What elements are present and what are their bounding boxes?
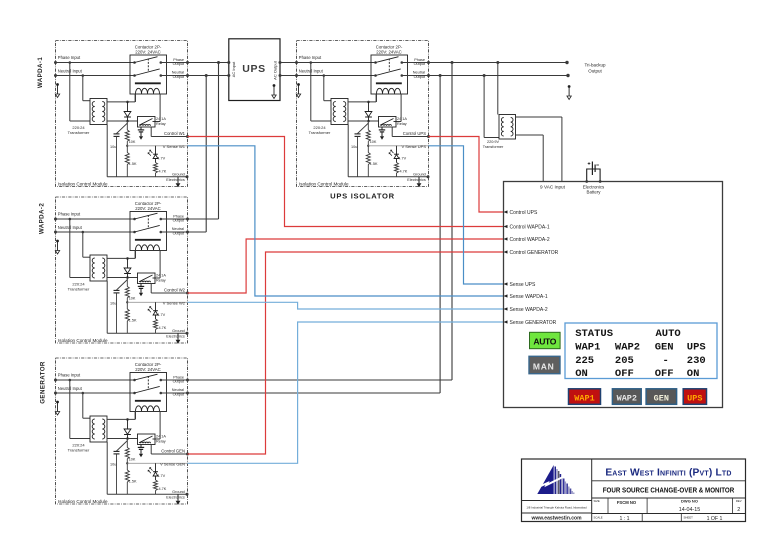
svg-text:Isolation Control Module: Isolation Control Module xyxy=(58,338,108,343)
svg-text:4.7K: 4.7K xyxy=(400,169,408,173)
svg-text:24 1A: 24 1A xyxy=(156,435,166,439)
svg-text:Electronics: Electronics xyxy=(166,495,185,499)
wire 220:9V transformer neutral drop xyxy=(483,74,499,138)
svg-text:Ground: Ground xyxy=(172,490,185,494)
svg-text:2: 2 xyxy=(737,507,740,513)
svg-text:Phase Input: Phase Input xyxy=(58,372,81,377)
svg-text:24 1A: 24 1A xyxy=(156,117,166,121)
svg-text:10u: 10u xyxy=(110,145,116,149)
svg-text:Phase Input: Phase Input xyxy=(58,55,81,60)
svg-text:225: 225 xyxy=(575,355,594,367)
svg-text:V Sense W2: V Sense W2 xyxy=(163,300,186,305)
UPS button xyxy=(683,389,706,405)
svg-text:UPS ISOLATOR: UPS ISOLATOR xyxy=(330,192,395,201)
wire UPS output phase to isolator xyxy=(279,61,297,64)
svg-text:GENERATOR: GENERATOR xyxy=(40,361,47,404)
svg-text:Neutral: Neutral xyxy=(172,388,184,392)
svg-text:1 : 1: 1 : 1 xyxy=(619,516,629,522)
svg-text:10K: 10K xyxy=(370,140,377,144)
svg-text:10u: 10u xyxy=(351,145,357,149)
svg-text:Phase Input: Phase Input xyxy=(58,211,81,216)
svg-text:Electronics: Electronics xyxy=(407,178,426,182)
svg-text:Transformer: Transformer xyxy=(309,130,331,135)
svg-text:V Sense GEN: V Sense GEN xyxy=(160,461,185,466)
UPS U1 box xyxy=(229,39,280,101)
company name xyxy=(605,468,731,479)
svg-text:14-04-15: 14-04-15 xyxy=(679,507,701,513)
GEN button xyxy=(646,389,677,405)
svg-text:4.7V: 4.7V xyxy=(157,157,165,161)
svg-text:24 1A: 24 1A xyxy=(397,117,407,121)
UPS-ISOLATOR ground arrow xyxy=(297,41,429,187)
wire Control WAPDA-2 (red) xyxy=(188,239,504,293)
svg-text:FSCM NO: FSCM NO xyxy=(617,500,637,505)
svg-text:Control WAPDA-1: Control WAPDA-1 xyxy=(510,224,550,230)
title block fields xyxy=(594,499,742,522)
svg-text:Transformer: Transformer xyxy=(68,287,90,292)
svg-text:AC Output: AC Output xyxy=(273,60,278,80)
title block frame xyxy=(522,459,746,522)
svg-text:10u: 10u xyxy=(110,463,116,467)
svg-text:Neutral: Neutral xyxy=(172,227,184,231)
status panel header AUTO xyxy=(656,328,681,340)
MAN button xyxy=(529,356,560,373)
svg-text:ON: ON xyxy=(687,368,700,380)
company logo xyxy=(534,465,574,494)
svg-text:Phase Input: Phase Input xyxy=(299,55,322,60)
svg-text:Control GEN: Control GEN xyxy=(161,449,185,454)
wire neutral bus isolator to Tri-backup output xyxy=(429,74,570,77)
svg-text:WAP2: WAP2 xyxy=(617,393,637,403)
svg-text:Output: Output xyxy=(588,68,602,73)
wire neutral bus WAPDA-1 to UPS xyxy=(188,74,231,77)
svg-text:REV: REV xyxy=(736,499,742,503)
svg-text:1.5K: 1.5K xyxy=(129,319,137,323)
svg-text:Control WAPDA-2: Control WAPDA-2 xyxy=(510,237,550,243)
svg-text:AUTO: AUTO xyxy=(656,328,681,340)
svg-text:GEN: GEN xyxy=(655,342,674,354)
WAP2 button xyxy=(612,389,641,405)
svg-text:Output: Output xyxy=(173,62,185,66)
svg-text:DWG NO: DWG NO xyxy=(681,499,698,504)
status display panel xyxy=(565,323,717,379)
svg-text:Output: Output xyxy=(173,380,185,384)
svg-text:Sense UPS: Sense UPS xyxy=(510,282,537,288)
svg-text:230: 230 xyxy=(687,355,706,367)
svg-text:www.eastwestin.com: www.eastwestin.com xyxy=(530,516,582,522)
svg-text:Output: Output xyxy=(173,219,185,223)
svg-text:OFF: OFF xyxy=(615,368,634,380)
wire Sense WAPDA-1 (blue) xyxy=(188,146,504,296)
WAPDA-1 ground arrow xyxy=(56,41,188,187)
svg-text:Electronics: Electronics xyxy=(166,178,185,182)
wire Sense GENERATOR (light blue) xyxy=(188,322,504,463)
svg-text:Control W2: Control W2 xyxy=(164,288,186,293)
wire GENERATOR phase feeder xyxy=(188,61,454,380)
wire Sense UPS (blue) xyxy=(429,146,504,284)
svg-text:1.5K: 1.5K xyxy=(370,162,378,166)
svg-text:OFF: OFF xyxy=(655,368,674,380)
svg-text:WAPDA-2: WAPDA-2 xyxy=(39,203,46,234)
svg-text:UPS: UPS xyxy=(687,342,706,354)
WAP1 button xyxy=(569,389,601,405)
wire 220:9V transformer phase drop xyxy=(496,61,499,115)
svg-text:Relay: Relay xyxy=(397,122,407,126)
wire phase bus WAPDA-1 to UPS xyxy=(188,61,231,64)
svg-text:Ground: Ground xyxy=(413,173,426,177)
svg-text:UPS: UPS xyxy=(242,63,265,75)
wire 9VAC secondary top to control unit xyxy=(516,117,562,182)
svg-text:Neutral: Neutral xyxy=(413,71,425,75)
svg-text:Control W1: Control W1 xyxy=(164,131,186,136)
control unit pin Control GENERATOR xyxy=(504,250,559,256)
status panel source row xyxy=(575,342,706,354)
svg-text:SCALE: SCALE xyxy=(594,516,603,520)
control unit pin Sense WAPDA-2 xyxy=(504,307,548,313)
svg-text:4.7V: 4.7V xyxy=(157,313,165,317)
status panel state row xyxy=(575,368,699,380)
svg-text:WAP1: WAP1 xyxy=(575,342,600,354)
svg-text:SHEET: SHEET xyxy=(684,516,694,520)
UPS ISOLATOR caption xyxy=(330,192,395,201)
svg-text:220:9V: 220:9V xyxy=(487,140,500,144)
svg-text:GEN: GEN xyxy=(654,393,669,403)
company website xyxy=(530,516,582,522)
control unit pin Control WAPDA-1 xyxy=(504,224,550,230)
svg-text:1 OF 1: 1 OF 1 xyxy=(707,516,723,522)
svg-text:4.7K: 4.7K xyxy=(159,326,167,330)
svg-text:Transformer: Transformer xyxy=(68,130,90,135)
svg-text:Output: Output xyxy=(173,393,185,397)
wire WAPDA-2 neutral feeder xyxy=(188,74,208,232)
UPS earth symbol xyxy=(272,84,276,98)
svg-text:10K: 10K xyxy=(129,140,136,144)
svg-text:1.5K: 1.5K xyxy=(129,480,137,484)
svg-text:Relay: Relay xyxy=(156,279,166,283)
electronics battery BT1 xyxy=(585,162,601,183)
wire 9VAC secondary bottom to control unit xyxy=(516,135,544,182)
svg-text:220V: 24VAC: 220V: 24VAC xyxy=(376,50,402,55)
wire Sense WAPDA-2 (light blue) xyxy=(188,302,504,309)
svg-text:FOUR SOURCE CHANGE-OVER & MONI: FOUR SOURCE CHANGE-OVER & MONITOR xyxy=(603,487,735,495)
svg-text:10u: 10u xyxy=(110,302,116,306)
wire phase bus isolator to Tri-backup output xyxy=(429,61,569,64)
svg-text:Sense WAPDA-1: Sense WAPDA-1 xyxy=(510,294,548,300)
svg-text:9 VAC Input: 9 VAC Input xyxy=(540,185,566,190)
svg-text:ON: ON xyxy=(575,368,588,380)
Electronics Battery label xyxy=(583,184,605,194)
control unit pin Sense GENERATOR xyxy=(504,320,557,326)
svg-text:4.7V: 4.7V xyxy=(157,474,165,478)
svg-text:Control UPS: Control UPS xyxy=(510,210,538,216)
control unit pin Control WAPDA-2 xyxy=(504,237,550,243)
svg-text:WAP2: WAP2 xyxy=(615,342,640,354)
wire Control WAPDA-1 (red) xyxy=(188,137,504,227)
svg-text:10K: 10K xyxy=(129,457,136,461)
svg-text:4.7K: 4.7K xyxy=(159,487,167,491)
svg-text:Tri-backup: Tri-backup xyxy=(584,63,606,68)
control unit U2 box xyxy=(504,182,723,408)
Tri-backup Output label xyxy=(584,63,606,74)
svg-text:Output: Output xyxy=(173,232,185,236)
svg-text:Isolation Control Module: Isolation Control Module xyxy=(58,182,108,187)
svg-text:Relay: Relay xyxy=(156,440,166,444)
svg-text:205: 205 xyxy=(615,355,634,367)
svg-text:AUTO: AUTO xyxy=(533,337,556,347)
control unit pin Sense UPS xyxy=(504,282,537,288)
svg-text:Output: Output xyxy=(414,75,426,79)
svg-text:Ground: Ground xyxy=(172,329,185,333)
AUTO button xyxy=(530,332,561,348)
svg-text:V Sense UPS: V Sense UPS xyxy=(402,144,427,149)
svg-text:Isolation Control Module: Isolation Control Module xyxy=(299,182,349,187)
status panel header STATUS xyxy=(575,328,613,340)
svg-text:Isolation Control Module: Isolation Control Module xyxy=(58,499,108,504)
svg-text:Relay: Relay xyxy=(156,122,166,126)
svg-text:4.7V: 4.7V xyxy=(398,157,406,161)
svg-text:Output: Output xyxy=(173,75,185,79)
svg-text:STATUS: STATUS xyxy=(575,328,613,340)
svg-text:220V: 24VAC: 220V: 24VAC xyxy=(135,50,161,55)
wire GENERATOR neutral feeder xyxy=(188,74,442,393)
status panel voltage row xyxy=(575,355,706,367)
svg-text:Neutral: Neutral xyxy=(172,71,184,75)
WAPDA-2 source label xyxy=(39,203,46,234)
9 VAC Input label xyxy=(540,185,566,190)
svg-text:WAPDA-1: WAPDA-1 xyxy=(37,57,44,88)
svg-text:Transformer: Transformer xyxy=(68,448,90,453)
WAPDA-1 source label xyxy=(37,57,44,88)
svg-text:10K: 10K xyxy=(129,296,136,300)
svg-text:V Sense W1: V Sense W1 xyxy=(163,144,186,149)
svg-text:1.5K: 1.5K xyxy=(129,162,137,166)
svg-text:220V: 24VAC: 220V: 24VAC xyxy=(135,367,161,372)
control unit pin Control UPS xyxy=(504,210,538,216)
wire UPS output neutral to isolator xyxy=(279,74,297,77)
svg-text:-: - xyxy=(663,355,669,367)
svg-text:SIZE: SIZE xyxy=(594,499,600,503)
svg-text:Electronics: Electronics xyxy=(166,334,185,338)
svg-text:1/8 Industrial Triangle Kahuta: 1/8 Industrial Triangle Kahuta Road, Isl… xyxy=(526,506,587,510)
wire WAPDA-2 phase feeder xyxy=(188,61,221,219)
WAPDA-2 ground arrow xyxy=(56,197,188,343)
GENERATOR source label xyxy=(40,361,47,404)
svg-text:AC Input: AC Input xyxy=(231,61,236,77)
svg-text:UPS: UPS xyxy=(687,393,702,403)
svg-text:Output: Output xyxy=(414,62,426,66)
svg-text:Transformer: Transformer xyxy=(483,145,504,149)
transformer T5 220:9V xyxy=(483,115,516,149)
Tri-backup earth symbol xyxy=(567,85,571,99)
svg-text:4.7K: 4.7K xyxy=(159,169,167,173)
svg-text:Battery: Battery xyxy=(587,189,602,194)
svg-text:WAP1: WAP1 xyxy=(574,393,594,403)
svg-text:Sense GENERATOR: Sense GENERATOR xyxy=(510,320,557,326)
company address xyxy=(526,506,587,510)
GENERATOR ground arrow xyxy=(56,358,188,504)
svg-text:MAN: MAN xyxy=(533,362,555,372)
svg-text:Control UPS: Control UPS xyxy=(403,131,426,136)
svg-text:Ground: Ground xyxy=(172,173,185,177)
svg-text:East West Infiniti (Pvt) Ltd: East West Infiniti (Pvt) Ltd xyxy=(605,468,731,479)
svg-text:24 1A: 24 1A xyxy=(156,274,166,278)
wire Control GENERATOR (red) xyxy=(188,252,504,454)
drawing title xyxy=(603,487,735,495)
svg-text:220V: 24VAC: 220V: 24VAC xyxy=(135,206,161,211)
wire Control UPS (red) xyxy=(429,137,504,213)
svg-text:Sense WAPDA-2: Sense WAPDA-2 xyxy=(510,307,548,313)
svg-text:Control GENERATOR: Control GENERATOR xyxy=(510,250,559,256)
control unit pin Sense WAPDA-1 xyxy=(504,294,548,300)
